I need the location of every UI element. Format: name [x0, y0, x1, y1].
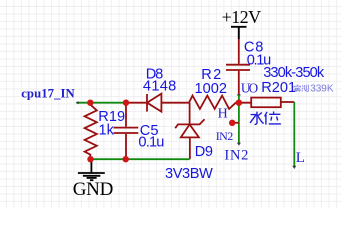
- junction dot E: [123, 156, 129, 162]
- svg-text:GND: GND: [73, 179, 114, 200]
- svg-text:1k: 1k: [99, 122, 115, 138]
- svg-text:4148: 4148: [143, 78, 176, 94]
- svg-text:D9: D9: [195, 144, 213, 160]
- svg-text:cpu17_IN: cpu17_IN: [21, 87, 74, 101]
- wire end arrow middle: [237, 143, 241, 146]
- svg-text:R201: R201: [261, 80, 296, 96]
- resistor R19: [85, 103, 97, 159]
- pin end tick C8: [237, 94, 240, 96]
- capacitor C8: [226, 39, 250, 95]
- svg-text:330k-350k: 330k-350k: [263, 65, 325, 81]
- resistor R201: [251, 98, 294, 108]
- svg-text:L: L: [296, 150, 305, 166]
- ground symbol: [78, 159, 105, 180]
- svg-text:3V3BW: 3V3BW: [165, 166, 213, 182]
- wire vertical middle: [238, 103, 240, 144]
- wire vertical right: [293, 102, 295, 167]
- junction dot B: [123, 100, 129, 106]
- note 实测: [294, 85, 309, 92]
- junction dot A: [87, 100, 93, 106]
- wire end arrow right: [292, 166, 296, 169]
- junction dot C: [236, 100, 242, 106]
- resistor R2: [189, 96, 251, 109]
- svg-text:H: H: [218, 107, 228, 122]
- zener diode D9: [175, 103, 204, 160]
- svg-text:+12V: +12V: [222, 7, 262, 27]
- wire bottom horizontal: [91, 158, 190, 160]
- wire C8 to junction: [238, 95, 240, 103]
- svg-text:339K: 339K: [310, 84, 334, 95]
- junction dot D: [87, 156, 93, 162]
- diode D8: [127, 94, 190, 112]
- power bar: [231, 27, 247, 39]
- svg-text:UO: UO: [241, 80, 258, 95]
- svg-text:IN2: IN2: [216, 129, 233, 143]
- junction dot F: [229, 120, 235, 126]
- svg-text:0.1u: 0.1u: [138, 134, 164, 150]
- junction stub: [232, 122, 239, 124]
- wire end arrow left: [76, 101, 79, 104]
- wire main horizontal: [77, 102, 127, 104]
- svg-text:IN2: IN2: [224, 148, 248, 164]
- text 水位: [250, 112, 281, 125]
- capacitor C5: [114, 103, 139, 160]
- svg-text:1002: 1002: [195, 81, 227, 97]
